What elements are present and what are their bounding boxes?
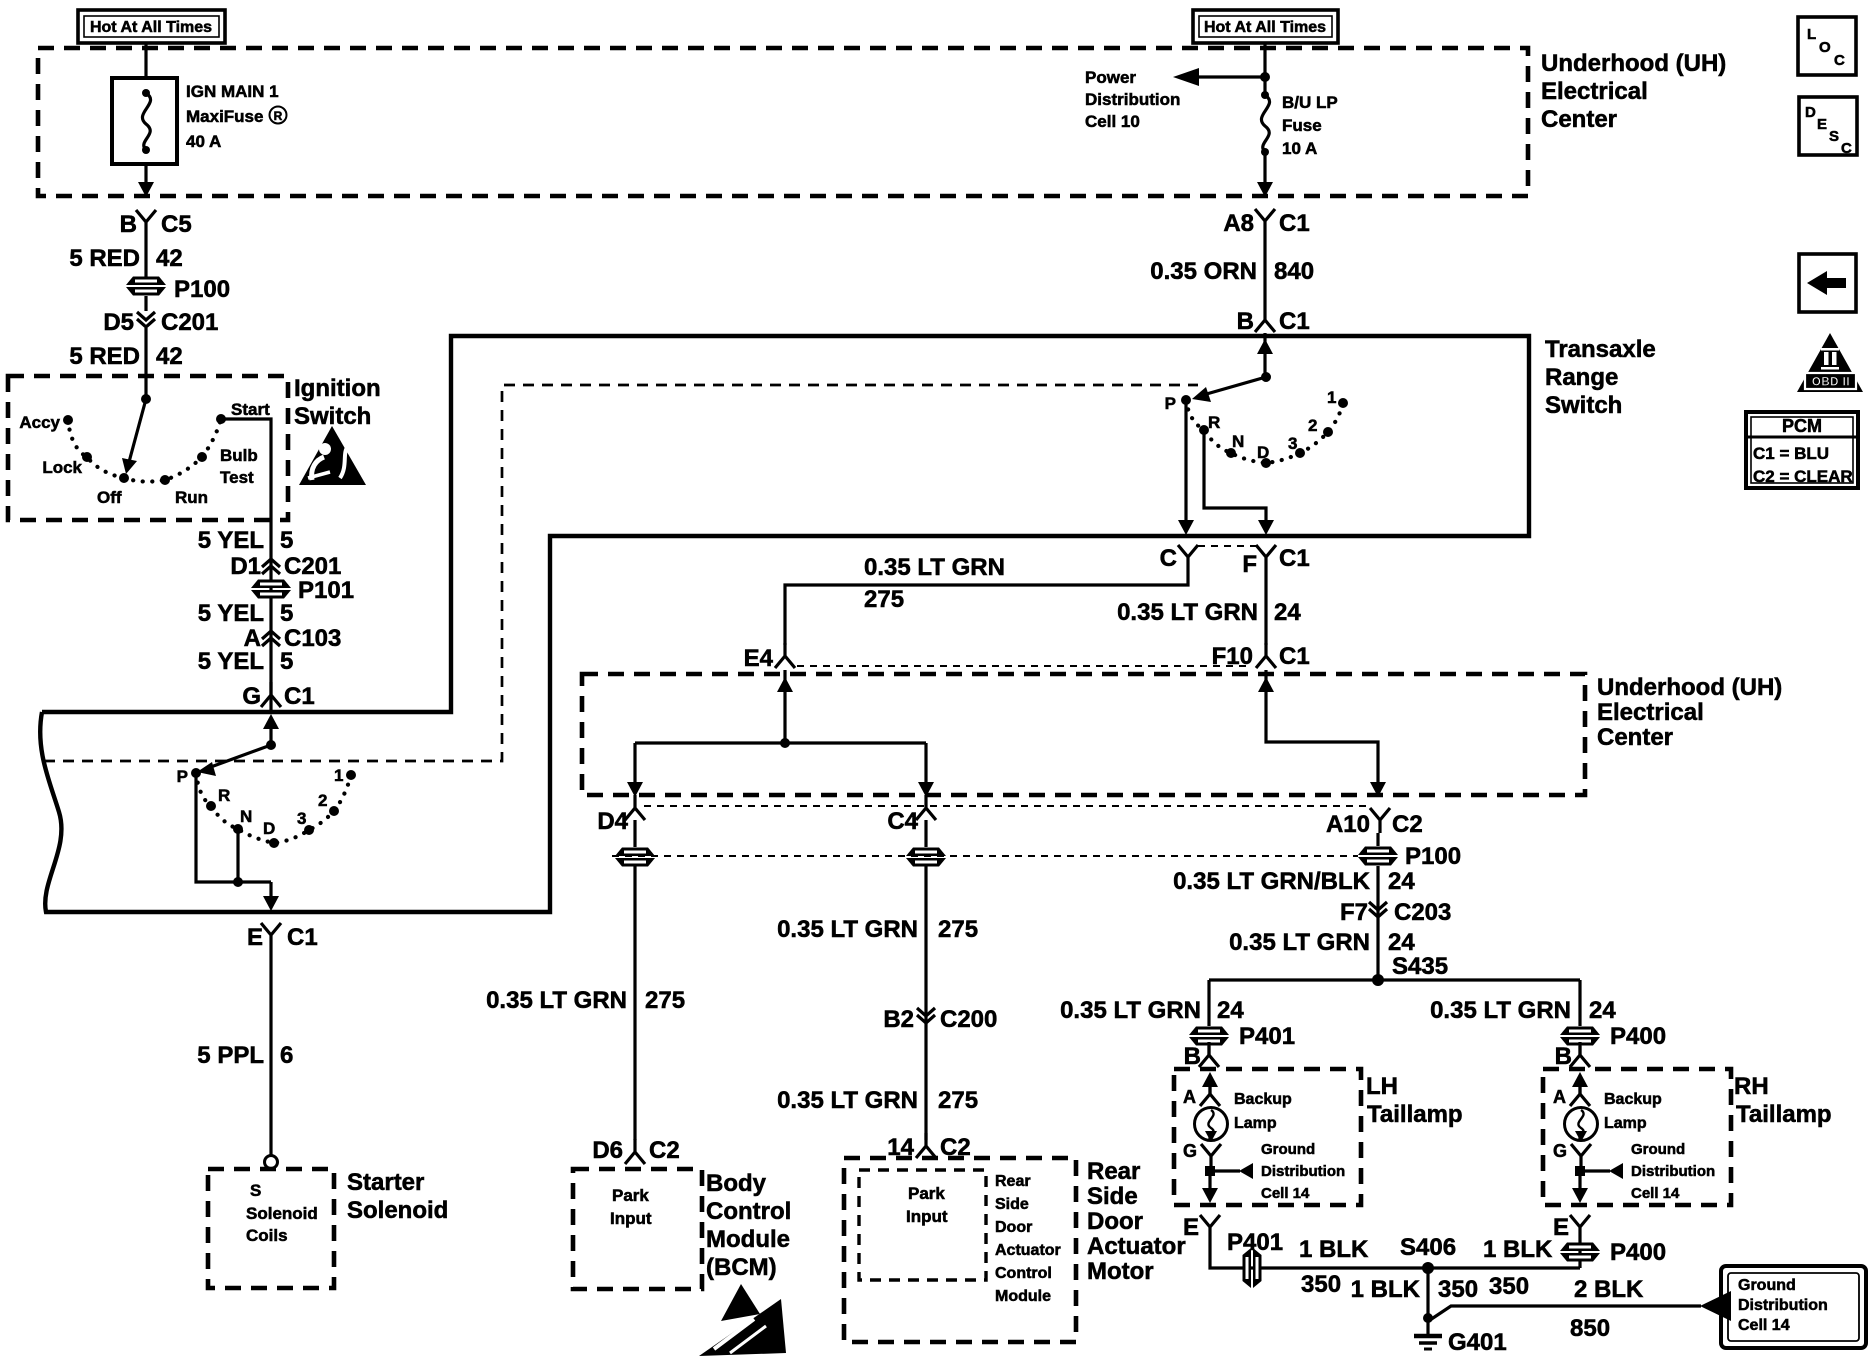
svg-text:Module: Module xyxy=(706,1226,790,1253)
svg-text:A8: A8 xyxy=(1223,210,1254,237)
arrow: to Power Distribution Cell 10 xyxy=(1085,68,1265,131)
svg-text:6: 6 xyxy=(280,1042,293,1069)
connector P100 (right) xyxy=(1358,843,1461,870)
svg-text:Solenoid: Solenoid xyxy=(246,1204,318,1223)
svg-text:Cell 14: Cell 14 xyxy=(1261,1185,1310,1202)
svg-text:2: 2 xyxy=(1308,416,1317,435)
svg-text:1 BLK: 1 BLK xyxy=(1351,1276,1421,1303)
svg-text:Center: Center xyxy=(1541,106,1617,133)
power label box: Hot At All Times (right) xyxy=(1193,10,1338,43)
svg-text:C2: C2 xyxy=(649,1137,680,1164)
wire arrow up into lower switch region xyxy=(263,714,279,729)
label: Ignition Switch xyxy=(294,375,381,430)
connector faceline through pass-throughs (dashed) xyxy=(612,855,1358,857)
fuse F2: B/U LP Fuse 10 A xyxy=(1261,91,1338,158)
svg-text:1: 1 xyxy=(334,766,343,785)
back-arrow reference box xyxy=(1799,254,1856,312)
label: 5 YEL 5 (first) xyxy=(198,527,294,554)
svg-text:Test: Test xyxy=(220,468,254,487)
svg-text:G: G xyxy=(1553,1141,1567,1161)
svg-text:A: A xyxy=(1183,1087,1196,1107)
wire: 5 RED 42 (lower) into ignition switch xyxy=(69,328,182,399)
ignition switch rotor: junction and wiper arrow xyxy=(122,394,151,474)
svg-text:L: L xyxy=(1807,26,1816,43)
wire: P contact to output (lower switch) xyxy=(196,773,271,882)
svg-text:RH: RH xyxy=(1734,1073,1769,1100)
RH lamp feed arrow + node A xyxy=(1553,1072,1590,1107)
svg-text:Side: Side xyxy=(995,1196,1029,1213)
svg-text:Backup: Backup xyxy=(1234,1091,1292,1108)
LOC reference box xyxy=(1798,17,1856,75)
svg-text:Start: Start xyxy=(231,400,270,419)
svg-text:5 PPL: 5 PPL xyxy=(197,1042,264,1069)
svg-text:G: G xyxy=(1183,1141,1197,1161)
node E (LH) xyxy=(1183,1214,1283,1256)
svg-text:R: R xyxy=(218,786,230,805)
wire below P100 xyxy=(144,296,147,311)
wire: 0.35 ORN 840 xyxy=(1150,234,1314,307)
svg-text:Switch: Switch xyxy=(294,403,371,430)
label: Starter Solenoid xyxy=(347,1169,448,1224)
RH ground tap with arrow xyxy=(1575,1141,1715,1202)
svg-text:42: 42 xyxy=(156,343,183,370)
wire: 2 BLK 850 to Ground Distribution xyxy=(1430,1276,1731,1342)
splice S406 xyxy=(1400,1234,1456,1274)
svg-text:D6: D6 xyxy=(592,1137,623,1164)
label: LH Taillamp xyxy=(1366,1073,1463,1128)
svg-text:275: 275 xyxy=(864,586,904,613)
svg-text:G: G xyxy=(242,683,261,710)
wire: fuse to A8 with arrow xyxy=(1257,152,1273,197)
svg-text:P100: P100 xyxy=(1405,843,1461,870)
svg-text:Actuator: Actuator xyxy=(1087,1233,1186,1260)
wire: C4 column 0.35 LT GRN 275 upper xyxy=(777,866,978,1140)
svg-text:24: 24 xyxy=(1274,599,1301,626)
Transaxle Range Switch outline (solid box with torn lower-left region) xyxy=(40,336,1529,912)
svg-text:Transaxle: Transaxle xyxy=(1545,336,1656,363)
svg-text:B2: B2 xyxy=(883,1006,914,1033)
svg-text:850: 850 xyxy=(1570,1315,1610,1342)
ground symbol G401 xyxy=(1414,1318,1507,1356)
svg-text:Hot At All Times: Hot At All Times xyxy=(1204,19,1326,36)
svg-text:B: B xyxy=(1237,308,1254,335)
svg-text:C1: C1 xyxy=(1279,210,1310,237)
wire: right feed down from Hot At All Times xyxy=(1263,43,1266,94)
node F7 C203 xyxy=(1340,899,1451,926)
junction node at N drop xyxy=(233,877,243,887)
svg-text:C: C xyxy=(1834,52,1845,69)
svg-text:Cell 10: Cell 10 xyxy=(1085,112,1140,131)
node 14 C2 xyxy=(887,1133,970,1161)
svg-text:1: 1 xyxy=(1327,388,1336,407)
svg-text:350: 350 xyxy=(1489,1273,1529,1300)
svg-text:Coils: Coils xyxy=(246,1226,288,1245)
svg-text:350: 350 xyxy=(1438,1276,1478,1303)
wire: left branch to P401 (0.35 LT GRN 24) xyxy=(1060,980,1244,1026)
node B (RH) xyxy=(1555,1042,1590,1070)
node C (C1) xyxy=(1160,545,1198,572)
node D1 C201 xyxy=(230,553,341,580)
svg-text:10 A: 10 A xyxy=(1282,139,1317,158)
svg-text:5: 5 xyxy=(280,648,293,675)
svg-text:C1: C1 xyxy=(1279,308,1310,335)
junction node (lower switch feed) xyxy=(266,740,276,750)
connector P400 xyxy=(1560,1023,1666,1050)
svg-text:Range: Range xyxy=(1545,364,1618,391)
RH node G xyxy=(1553,1141,1591,1169)
PCM legend box xyxy=(1746,412,1858,488)
node F (C1) xyxy=(1242,545,1309,578)
svg-text:Control: Control xyxy=(995,1265,1052,1282)
svg-text:S: S xyxy=(1829,128,1839,145)
svg-text:Distribution: Distribution xyxy=(1631,1163,1715,1180)
svg-text:0.35 LT GRN: 0.35 LT GRN xyxy=(486,987,627,1014)
node D4 xyxy=(597,795,645,835)
svg-text:Fuse: Fuse xyxy=(1282,116,1322,135)
svg-text:Backup: Backup xyxy=(1604,1091,1662,1108)
svg-text:P400: P400 xyxy=(1610,1023,1666,1050)
svg-text:D: D xyxy=(1805,104,1816,121)
svg-text:2 BLK: 2 BLK xyxy=(1574,1276,1644,1303)
wire: battery feed into left fuse xyxy=(144,43,147,80)
svg-text:C1: C1 xyxy=(284,683,315,710)
svg-text:R: R xyxy=(1208,413,1220,432)
wire: output down with arrow through region edge xyxy=(269,882,272,897)
svg-text:P101: P101 xyxy=(298,577,354,604)
svg-text:Lamp: Lamp xyxy=(1604,1115,1647,1132)
svg-text:Taillamp: Taillamp xyxy=(1736,1101,1832,1128)
svg-text:Distribution: Distribution xyxy=(1261,1163,1345,1180)
svg-text:275: 275 xyxy=(645,987,685,1014)
svg-text:A10: A10 xyxy=(1326,811,1370,838)
wire: A10 column 0.35 LT GRN/BLK 24 xyxy=(1173,866,1415,980)
connector P400 (in-line) xyxy=(1560,1239,1666,1266)
lower switch wiper arrow to P xyxy=(208,745,271,768)
svg-text:Hot At All Times: Hot At All Times xyxy=(90,19,212,36)
svg-text:3: 3 xyxy=(297,809,306,828)
label: 1 BLK 350 (left) xyxy=(1299,1236,1369,1298)
svg-text:D: D xyxy=(263,819,275,838)
svg-text:350: 350 xyxy=(1301,1271,1341,1298)
svg-text:C200: C200 xyxy=(940,1006,997,1033)
label: Transaxle Range Switch xyxy=(1545,336,1656,419)
svg-text:0.35 ORN: 0.35 ORN xyxy=(1150,258,1257,285)
svg-text:Ground: Ground xyxy=(1261,1141,1315,1158)
box: Underhood (UH) Electrical Center (middle, dashed) xyxy=(582,674,1585,795)
svg-text:P401: P401 xyxy=(1239,1023,1295,1050)
svg-text:0.35 LT GRN: 0.35 LT GRN xyxy=(1060,997,1201,1024)
node B C5 xyxy=(120,210,192,238)
svg-text:5 YEL: 5 YEL xyxy=(198,648,264,675)
svg-text:Run: Run xyxy=(175,488,208,507)
svg-text:C: C xyxy=(1841,140,1852,157)
svg-text:Distribution: Distribution xyxy=(1738,1297,1828,1314)
node B (LH) xyxy=(1184,1042,1219,1070)
svg-text:B: B xyxy=(120,211,137,238)
node E C1 xyxy=(247,923,318,951)
wire stub D4 to connector xyxy=(633,820,636,847)
OBD II triangle icon xyxy=(1797,333,1863,392)
svg-text:C4: C4 xyxy=(887,808,918,835)
svg-text:Cell 14: Cell 14 xyxy=(1738,1317,1790,1334)
node A C103 xyxy=(244,625,342,652)
wire: R contact to F exit with arrow xyxy=(1204,430,1274,535)
mechanical linkage (dashed) ignition to transaxle switch xyxy=(44,385,1198,761)
svg-text:Ignition: Ignition xyxy=(294,375,381,402)
node G C1 xyxy=(242,682,314,710)
svg-text:Off: Off xyxy=(97,488,122,507)
svg-text:C2 = CLEAR: C2 = CLEAR xyxy=(1753,467,1853,486)
pass-through connector (D4 column) xyxy=(615,848,655,867)
svg-text:0.35 LT GRN: 0.35 LT GRN xyxy=(1430,997,1571,1024)
svg-text:1 BLK: 1 BLK xyxy=(1299,1236,1369,1263)
svg-text:C1: C1 xyxy=(1279,545,1310,572)
svg-text:5: 5 xyxy=(280,527,293,554)
svg-text:Input: Input xyxy=(610,1209,652,1228)
junction node to Power Distribution xyxy=(1260,72,1270,82)
svg-text:C201: C201 xyxy=(284,553,341,580)
box: RH Taillamp (dashed) xyxy=(1543,1069,1731,1205)
svg-text:E: E xyxy=(247,924,263,951)
svg-text:PCM: PCM xyxy=(1782,416,1822,436)
svg-text:Door: Door xyxy=(995,1219,1032,1236)
svg-text:Accy: Accy xyxy=(19,413,60,432)
svg-text:O: O xyxy=(1819,39,1831,56)
wire stub C4 to connector xyxy=(924,820,927,847)
label: RH Taillamp xyxy=(1734,1073,1832,1128)
junction node (upper switch feed) xyxy=(1261,372,1271,382)
warning triangle icon (ignition) xyxy=(299,426,366,485)
box: Underhood (UH) Electrical Center (top, dashed) xyxy=(38,48,1528,196)
svg-text:Electrical: Electrical xyxy=(1597,699,1704,726)
svg-text:0.35 LT GRN: 0.35 LT GRN xyxy=(777,916,918,943)
svg-text:0.35 LT GRN: 0.35 LT GRN xyxy=(777,1087,918,1114)
svg-text:275: 275 xyxy=(938,916,978,943)
svg-text:P400: P400 xyxy=(1610,1239,1666,1266)
box: BCM Park Input (dashed) xyxy=(573,1169,702,1289)
svg-text:Starter: Starter xyxy=(347,1169,424,1196)
svg-text:E: E xyxy=(1553,1214,1569,1241)
box: Rear Side Door Actuator Control Module (outer dashed) xyxy=(844,1158,1076,1342)
svg-text:Center: Center xyxy=(1597,724,1673,751)
svg-text:C: C xyxy=(1160,545,1177,572)
svg-text:C201: C201 xyxy=(161,309,218,336)
wire: LH E down to ground bus xyxy=(1210,1240,1580,1268)
svg-text:S406: S406 xyxy=(1400,1234,1456,1261)
svg-text:40 A: 40 A xyxy=(186,132,221,151)
svg-text:840: 840 xyxy=(1274,258,1314,285)
wire: E4 branch inside UH center xyxy=(627,670,934,797)
svg-text:5 RED: 5 RED xyxy=(69,343,140,370)
wire: 5 PPL 6 to starter solenoid xyxy=(197,948,293,1156)
svg-text:2: 2 xyxy=(318,791,327,810)
label: 0.35 LT GRN 24 xyxy=(1229,929,1415,956)
LH exit arrow down xyxy=(1202,1176,1218,1203)
LH backup lamp bulb xyxy=(1195,1091,1293,1142)
RH exit arrow down xyxy=(1572,1176,1588,1203)
svg-text:Taillamp: Taillamp xyxy=(1367,1101,1463,1128)
DESC reference box xyxy=(1799,97,1857,157)
node B2 C200 xyxy=(883,1006,997,1033)
svg-text:E4: E4 xyxy=(744,645,774,672)
svg-text:C5: C5 xyxy=(161,211,192,238)
wire into transaxle switch with up arrow xyxy=(1257,333,1273,377)
wire: D4 column 0.35 LT GRN 275 to D6 xyxy=(486,866,685,1140)
svg-text:Module: Module xyxy=(995,1288,1051,1305)
connector faceline D4/C4/A10 (dashed) xyxy=(644,805,1366,807)
svg-text:0.35 LT GRN: 0.35 LT GRN xyxy=(1229,929,1370,956)
node D6 C2 xyxy=(592,1137,679,1164)
svg-text:C1: C1 xyxy=(287,924,318,951)
connector P101 xyxy=(251,577,354,604)
node A10 C2 xyxy=(1326,808,1423,838)
svg-text:F7: F7 xyxy=(1340,899,1368,926)
svg-text:LH: LH xyxy=(1366,1073,1398,1100)
svg-text:C1: C1 xyxy=(1279,643,1310,670)
splice S435 xyxy=(1372,953,1448,986)
svg-text:D1: D1 xyxy=(230,553,261,580)
node B C1 (transaxle) xyxy=(1237,307,1310,335)
label: Underhood (UH) Electrical Center (top right) xyxy=(1541,50,1726,133)
upper switch wiper arrow to P xyxy=(1203,377,1266,395)
svg-text:3: 3 xyxy=(1288,434,1297,453)
svg-text:24: 24 xyxy=(1589,997,1616,1024)
svg-text:Rear: Rear xyxy=(1087,1158,1140,1185)
node F10 C1 xyxy=(1212,643,1310,670)
svg-text:IGN MAIN 1: IGN MAIN 1 xyxy=(186,82,279,101)
node E4 xyxy=(744,643,795,672)
svg-text:24: 24 xyxy=(1388,868,1415,895)
ESD sensitive icon xyxy=(699,1284,786,1356)
label: 0.35 LT GRN 275 lower xyxy=(777,1087,978,1114)
svg-text:Lock: Lock xyxy=(42,458,82,477)
pass-through connector (C4 column) xyxy=(906,848,946,867)
svg-text:Door: Door xyxy=(1087,1208,1143,1235)
connector P401 xyxy=(1189,1023,1295,1050)
svg-text:MaxiFuse: MaxiFuse xyxy=(186,107,263,126)
box: Ignition Switch (dashed) xyxy=(8,376,288,520)
svg-text:E: E xyxy=(1183,1214,1199,1241)
fuse F1: IGN MAIN 1 MaxiFuse 40 A xyxy=(112,78,287,164)
svg-text:Control: Control xyxy=(706,1198,791,1225)
wire: RH E down to ground bus xyxy=(1578,1240,1581,1268)
lower rotary switch contacts P R N D 3 2 1 xyxy=(177,766,356,848)
label: Rear Side Door Actuator Motor xyxy=(1087,1158,1186,1285)
svg-text:Bulb: Bulb xyxy=(220,446,258,465)
grommet connector P401 (in-line, horizontal run) xyxy=(1243,1248,1262,1288)
wire: fuse output with arrow to C5 xyxy=(138,164,154,197)
wire: C exit to E4 (0.35 LT GRN 275) xyxy=(785,554,1188,645)
svg-text:Actuator: Actuator xyxy=(995,1242,1061,1259)
label: 1 BLK 350 (right) xyxy=(1483,1236,1553,1300)
svg-text:5: 5 xyxy=(280,600,293,627)
svg-text:Side: Side xyxy=(1087,1183,1138,1210)
svg-text:1 BLK: 1 BLK xyxy=(1483,1236,1553,1263)
terminal ring at starter solenoid S xyxy=(265,1156,278,1169)
svg-text:Ground: Ground xyxy=(1631,1141,1685,1158)
svg-text:F: F xyxy=(1242,551,1257,578)
wire: F exit to F10 (0.35 LT GRN 24) xyxy=(1117,570,1301,645)
svg-text:R: R xyxy=(274,109,283,123)
LH lamp feed arrow + node A xyxy=(1183,1072,1220,1107)
node C4 xyxy=(887,795,936,835)
svg-text:24: 24 xyxy=(1217,997,1244,1024)
wire: right branch to P400 (0.35 LT GRN 24) xyxy=(1430,980,1616,1026)
svg-text:Solenoid: Solenoid xyxy=(347,1197,448,1224)
svg-text:42: 42 xyxy=(156,245,183,272)
node D5 C201 xyxy=(103,309,218,336)
svg-text:D5: D5 xyxy=(103,309,134,336)
label: 5 YEL 5 (third) xyxy=(198,648,294,675)
svg-text:Underhood (UH): Underhood (UH) xyxy=(1541,50,1726,77)
wire: N contact drop xyxy=(236,829,239,882)
label: Underhood (UH) Electrical Center (middle) xyxy=(1597,674,1782,751)
svg-text:Cell 14: Cell 14 xyxy=(1631,1185,1680,1202)
wire: P contact to C exit with arrow xyxy=(1178,400,1194,535)
node E (RH) xyxy=(1553,1214,1590,1241)
svg-text:Distribution: Distribution xyxy=(1085,90,1180,109)
svg-text:P100: P100 xyxy=(174,276,230,303)
connector faceline E4-F10 (dashed) xyxy=(797,665,1252,667)
LH ground tap with arrow xyxy=(1205,1141,1345,1202)
label: 5 YEL 5 (second) xyxy=(198,600,294,627)
power label box: Hot At All Times (left) xyxy=(78,10,225,43)
label: Body Control Module (BCM) xyxy=(706,1170,791,1281)
svg-text:0.35 LT GRN: 0.35 LT GRN xyxy=(1117,599,1258,626)
svg-text:Body: Body xyxy=(706,1170,767,1197)
svg-text:Lamp: Lamp xyxy=(1234,1115,1277,1132)
svg-text:S435: S435 xyxy=(1392,953,1448,980)
svg-text:Power: Power xyxy=(1085,68,1136,87)
svg-text:P: P xyxy=(1165,394,1176,413)
svg-text:Motor: Motor xyxy=(1087,1258,1154,1285)
wire: S435 distribution bar xyxy=(1209,978,1580,981)
svg-text:A: A xyxy=(1553,1087,1566,1107)
ignition switch contact dots and labels xyxy=(19,400,270,507)
svg-text:0.35 LT GRN/BLK: 0.35 LT GRN/BLK xyxy=(1173,868,1371,895)
box: Ground Distribution Cell 14 xyxy=(1721,1266,1866,1348)
label: Rear Side Door Actuator Control Module (small) xyxy=(995,1173,1061,1305)
wire: 5 RED 42 (upper) xyxy=(69,235,182,277)
svg-text:P: P xyxy=(177,767,188,786)
svg-text:0.35 LT GRN: 0.35 LT GRN xyxy=(864,554,1005,581)
svg-text:Rear: Rear xyxy=(995,1173,1031,1190)
svg-text:Park: Park xyxy=(908,1184,945,1203)
box: Starter Solenoid (dashed) xyxy=(208,1169,334,1288)
wire: F10 branch to A10 inside UH center xyxy=(1258,670,1386,797)
svg-text:Electrical: Electrical xyxy=(1541,78,1648,105)
svg-text:5 RED: 5 RED xyxy=(69,245,140,272)
svg-text:Switch: Switch xyxy=(1545,392,1622,419)
svg-text:OBD II: OBD II xyxy=(1812,377,1850,389)
svg-text:C1 = BLU: C1 = BLU xyxy=(1753,444,1829,463)
svg-text:5 YEL: 5 YEL xyxy=(198,527,264,554)
svg-text:Park: Park xyxy=(612,1186,649,1205)
svg-text:S: S xyxy=(250,1181,261,1200)
svg-text:Input: Input xyxy=(906,1207,948,1226)
box: LH Taillamp (dashed) xyxy=(1174,1069,1361,1205)
svg-text:N: N xyxy=(240,807,252,826)
svg-text:24: 24 xyxy=(1388,929,1415,956)
svg-text:5 YEL: 5 YEL xyxy=(198,600,264,627)
wire: Start contact to ignition feed (5 YEL) xyxy=(221,419,271,712)
LH node G xyxy=(1183,1141,1221,1169)
svg-text:N: N xyxy=(1232,432,1244,451)
svg-text:Underhood (UH): Underhood (UH) xyxy=(1597,674,1782,701)
svg-text:D: D xyxy=(1257,443,1269,462)
connector P100 (left) xyxy=(126,276,230,303)
box: Park Input (inner dashed) xyxy=(859,1170,986,1280)
